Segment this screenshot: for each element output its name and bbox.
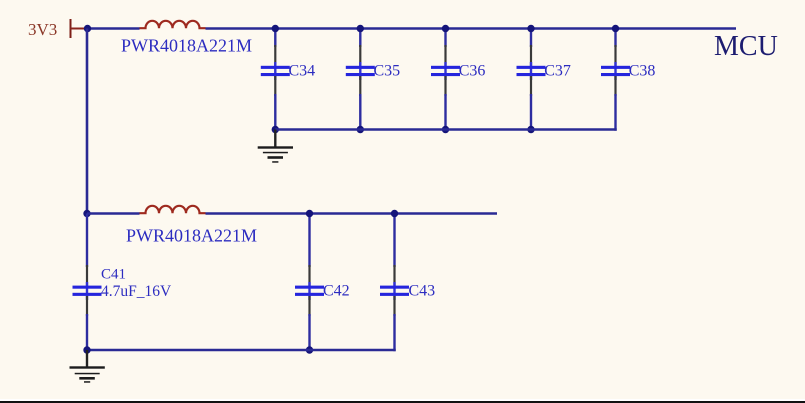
svg-text:C41: C41 <box>101 267 126 283</box>
svg-text:PWR4018A221M: PWR4018A221M <box>121 36 252 56</box>
capacitor C42 <box>295 214 350 351</box>
capacitor C34 <box>261 29 315 130</box>
junction C36 bottom <box>442 126 449 133</box>
svg-text:C35: C35 <box>374 63 401 80</box>
capacitor C36 <box>431 29 485 130</box>
junction C34 top <box>272 25 279 32</box>
wire top rail right <box>206 27 737 29</box>
junction lower rail left <box>83 210 90 217</box>
svg-text:C38: C38 <box>629 63 656 80</box>
junction C36 top <box>442 25 449 32</box>
capacitor C43 <box>380 214 435 352</box>
junction C37 top <box>527 25 534 32</box>
capacitor C41 <box>73 214 172 351</box>
svg-text:4.7uF_16V: 4.7uF_16V <box>101 283 172 300</box>
svg-text:C42: C42 <box>323 283 350 300</box>
svg-text:MCU: MCU <box>714 31 778 62</box>
svg-text:C36: C36 <box>459 63 486 80</box>
svg-text:C37: C37 <box>544 63 571 80</box>
junction C38 top <box>612 25 619 32</box>
junction bottom-left <box>83 346 90 353</box>
capacitor C38 <box>601 29 655 131</box>
capacitor C37 <box>517 29 571 130</box>
junction C34 bottom <box>272 126 279 133</box>
svg-text:3V3: 3V3 <box>28 20 57 39</box>
junction C42 top <box>306 210 313 217</box>
junction C42 bottom <box>306 346 313 353</box>
inductor L1 <box>140 21 206 28</box>
wire left vertical (3V3 down) <box>86 29 89 214</box>
power port 3V3 bar <box>71 19 86 38</box>
capacitor C35 <box>346 29 400 130</box>
svg-text:PWR4018A221M: PWR4018A221M <box>126 226 257 246</box>
wire cap bottom rail (top bank) <box>275 128 616 130</box>
junction C35 top <box>357 25 364 32</box>
sheet border bottom <box>0 399 805 403</box>
wire lower rail left <box>87 212 140 214</box>
inductor L2 <box>140 206 206 213</box>
ground GND1 <box>258 130 293 163</box>
wire lower rail right <box>206 212 498 214</box>
junction C43 top <box>391 210 398 217</box>
wire top rail left <box>86 27 140 29</box>
ground GND2 <box>70 350 105 383</box>
svg-text:C34: C34 <box>289 63 316 80</box>
junction C35 bottom <box>357 126 364 133</box>
wire bottom rail (lower bank) <box>87 349 396 351</box>
svg-text:C43: C43 <box>409 283 436 300</box>
junction C37 bottom <box>527 126 534 133</box>
junction node at 3V3 <box>84 25 91 32</box>
